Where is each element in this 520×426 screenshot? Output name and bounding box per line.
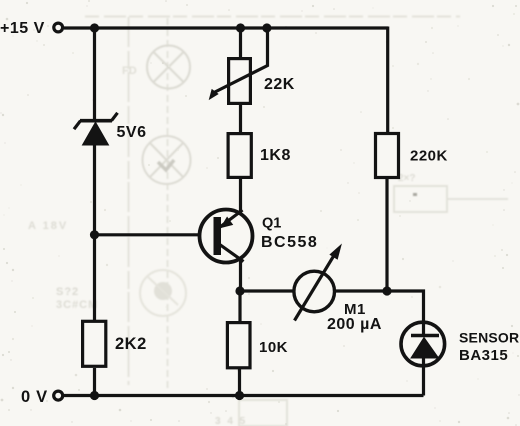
meter M1 [294,245,341,321]
ghost frame top line [85,16,460,18]
wire to meter [240,289,295,292]
wire left branch middle [93,143,96,321]
svg-text:3 4 5: 3 4 5 [215,416,247,426]
resistor 220K [376,134,399,178]
svg-text:BC558: BC558 [261,234,318,251]
transistor Q1 BC558 [200,210,253,263]
wire 10K top [238,291,241,322]
terminal +15V [54,23,63,32]
svg-text:A 18V: A 18V [28,220,68,232]
wire transistor to meter node [239,261,242,291]
ghost lamp circle 1 [147,46,190,89]
wire sensor bottom [422,366,425,396]
ghost circle 2 [143,136,191,184]
svg-text:2×?: 2×? [398,173,416,184]
wire 220K bottom [385,178,388,291]
wire left branch upper [93,28,96,120]
wire bottom rail [64,394,424,397]
svg-text:BA315: BA315 [459,347,508,364]
svg-text:0 V: 0 V [21,388,48,406]
svg-text:1K8: 1K8 [260,147,291,164]
node wiper junction [262,23,271,32]
svg-text:Q1: Q1 [262,216,281,232]
sensor diode BA315 [401,322,445,367]
node collector junction [235,286,244,295]
svg-text:22K: 22K [264,76,295,93]
wire meter to sensor branch [335,291,424,322]
node base junction [90,230,99,239]
trimmer wiper arrow [212,28,268,94]
resistor 2K2 [83,321,106,366]
node 220K bottom junction [382,286,391,295]
node trimmer top junction [236,23,245,32]
svg-text:S?2: S?2 [56,286,79,298]
svg-text:10K: 10K [259,339,288,356]
svg-text:FD: FD [122,65,137,77]
zener diode 5V6 [74,113,118,145]
ghost box bottom [239,400,287,426]
ghost circle 3 [140,270,186,316]
node 2K2 bottom junction [90,391,99,400]
ghost wire vertical [167,18,169,390]
node top-left junction [90,23,99,32]
wire 10K bottom [238,367,241,396]
svg-text:220K: 220K [410,148,448,165]
svg-text:2K2: 2K2 [115,335,147,353]
wire trimmer top [239,28,242,58]
wire 220K top [386,27,389,134]
svg-text:SENSOR: SENSOR [459,330,519,346]
node 10K bottom junction [235,391,244,400]
wire base [95,233,215,236]
ghost frame left line [128,17,130,385]
resistor 10K [227,323,250,368]
terminal 0V [54,391,63,400]
svg-text:3C#CM: 3C#CM [56,299,98,311]
svg-text:200 µA: 200 µA [327,316,382,333]
resistor 1K8 [228,134,251,178]
svg-text:5V6: 5V6 [117,124,147,141]
ghost rect right [394,186,508,212]
trimmer resistor 22K body [229,59,251,104]
wire top rail [64,26,388,29]
svg-text:+15 V: +15 V [0,20,45,37]
wire left branch lower [93,368,96,396]
wire 1K8 to transistor [239,177,242,211]
wire trimmer to 1K8 [239,103,242,133]
